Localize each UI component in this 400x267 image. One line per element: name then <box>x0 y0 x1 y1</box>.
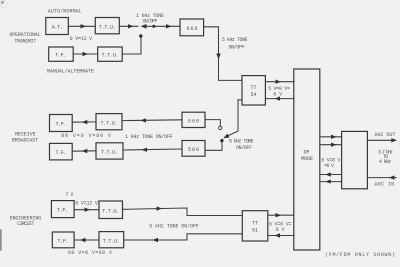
wire A.T. to T.T.U. <box>68 24 95 28</box>
svg-text:=6 V: =6 V <box>324 163 334 169</box>
smudge left edge <box>0 229 2 251</box>
svg-text:(FM/FDM ONLY SHOWN): (FM/FDM ONLY SHOWN) <box>325 252 395 258</box>
wire TT 54 to DF MODE (upper) <box>265 80 294 84</box>
wire AGC IN <box>367 175 396 179</box>
wire TT 51 to T.T.U. engineering 2 (with jog) <box>124 234 243 242</box>
box 580 <box>182 141 205 157</box>
svg-text:ON/OFF: ON/OFF <box>229 45 245 51</box>
wire 660 receive to open contact <box>205 120 220 126</box>
label 5 kHz TONE ON/OFF (receive) <box>229 139 254 151</box>
svg-text:TT: TT <box>251 85 257 91</box>
svg-text:AGC OUT: AGC OUT <box>375 132 396 138</box>
svg-text:BROADCAST: BROADCAST <box>12 137 38 143</box>
svg-text:5 kHz TONE ON/OFF: 5 kHz TONE ON/OFF <box>149 224 199 230</box>
label 1 kHz TONE ON/OFF (top) <box>136 13 164 25</box>
wire switch to 660 <box>154 24 180 28</box>
label 3.7 kHz TO 4 kHz <box>378 150 393 165</box>
box A.T. <box>46 18 69 35</box>
svg-text:51: 51 <box>252 228 258 234</box>
svg-text:TX: TX <box>66 192 74 198</box>
box T.T.U. engineering 1 <box>99 201 123 219</box>
box 660 receive <box>182 112 205 127</box>
svg-text:6 V: 6 V <box>273 92 282 98</box>
svg-text:MANUAL/ALTERNATE: MANUAL/ALTERNATE <box>47 69 94 75</box>
svg-text:AGC IN: AGC IN <box>375 181 395 187</box>
box T.F. engineering 2 <box>52 232 74 248</box>
wire DF MODE to AGC line 1 <box>320 135 341 139</box>
svg-text:T.F.: T.F. <box>56 150 67 156</box>
switch arm 5 kHz receive (arrow toward common) <box>223 131 238 138</box>
wire 660 to T.T.U. receive 1 <box>122 118 182 122</box>
box T.F. engineering 1 <box>51 201 74 218</box>
wire AGC OUT <box>367 138 396 142</box>
svg-text:54: 54 <box>251 92 257 98</box>
alternate contact dot (manual path) <box>139 34 142 37</box>
svg-text:1 kHz TONE ON/OFF: 1 kHz TONE ON/OFF <box>125 134 173 140</box>
switch common junction dot <box>220 139 223 142</box>
box T.T.U. operational auto <box>95 18 119 34</box>
paper speck top-left corner <box>0 0 7 7</box>
open contact circle (5 kHz switch off) <box>219 126 222 129</box>
svg-text:ON/OFF: ON/OFF <box>236 145 252 151</box>
box T.F. receive 1 <box>50 115 73 132</box>
wire DF MODE to AGC line 2 <box>320 143 341 147</box>
box T.F. operational manual <box>49 47 73 61</box>
svg-text:T.T.U.: T.T.U. <box>101 120 118 126</box>
box T.T.U. operational manual <box>98 47 123 61</box>
wire 660 to TT 54 (5 kHz branch) <box>204 27 242 81</box>
wire T.F. to T.T.U. engineering 1 <box>74 208 99 212</box>
svg-text:0 V=12 V: 0 V=12 V <box>75 200 98 206</box>
switch pivot dot <box>152 25 155 28</box>
wire DF MODE to TT 54 (lower) <box>265 96 294 100</box>
svg-text:0 V=12 V: 0 V=12 V <box>70 36 93 42</box>
wire AGC to DF MODE line 4 <box>320 179 341 183</box>
box AGC filter <box>342 131 368 188</box>
box T.T.U. engineering 2 <box>99 232 124 248</box>
wire T.T.U. engineering 1 to TT 51 (with jog) <box>123 206 243 215</box>
wire 580 to switch common <box>205 142 222 151</box>
svg-text:5 kHz TONE: 5 kHz TONE <box>222 37 248 43</box>
svg-text:TT: TT <box>252 221 258 227</box>
svg-text:T.F.: T.F. <box>58 238 69 244</box>
switch arm 1 kHz (arrow toward contact) <box>141 24 154 29</box>
box T.F. receive 2 <box>50 143 73 160</box>
svg-text:OPERATIONAL: OPERATIONAL <box>9 32 40 38</box>
svg-text:T.F.: T.F. <box>57 208 68 214</box>
label 5 kHz TONE ON/OFF (top) <box>222 37 248 50</box>
box T.T.U. receive 1 <box>96 114 122 130</box>
svg-text:4 kHz: 4 kHz <box>379 159 391 165</box>
wire TT 51 to DF MODE (upper) <box>268 213 295 217</box>
wire TT 54 down to 5 kHz switch arm <box>238 100 242 131</box>
svg-text:6 V: 6 V <box>276 227 285 233</box>
svg-text:T.F.: T.F. <box>55 53 66 59</box>
box 660 operational <box>180 19 204 36</box>
svg-text:T.T.U.: T.T.U. <box>99 24 116 30</box>
svg-text:MODE: MODE <box>301 156 313 162</box>
svg-text:660: 660 <box>187 26 198 32</box>
svg-text:T.F.: T.F. <box>56 121 67 127</box>
svg-text:660: 660 <box>188 118 199 124</box>
box DF MODE <box>294 69 320 250</box>
svg-text:T.T.U.: T.T.U. <box>102 209 119 215</box>
svg-text:580: 580 <box>188 147 199 153</box>
wire T.F. to T.T.U. manual <box>73 52 98 56</box>
wire DF MODE to TT 51 (lower) <box>268 233 295 237</box>
svg-text:5 kHz TONE: 5 kHz TONE <box>229 139 254 145</box>
wire T.T.U. to T.F. receive 1 <box>72 120 96 124</box>
label RECEIVE BROADCAST <box>12 132 38 144</box>
box TT 51 <box>242 211 267 241</box>
svg-text:T.T.U.: T.T.U. <box>102 53 119 59</box>
svg-text:AUTO/NORMAL: AUTO/NORMAL <box>48 8 82 14</box>
svg-text:80 V=0 V=80 V: 80 V=0 V=80 V <box>61 133 111 139</box>
label 5 V=0 V= / 6 V <box>268 86 290 98</box>
wire T.T.U. to T.F. engineering 2 <box>74 238 99 242</box>
wire T.T.U. to T.F. receive 2 <box>72 149 96 153</box>
svg-text:A.T.: A.T. <box>52 25 63 31</box>
svg-text:DF: DF <box>304 150 310 156</box>
svg-text:T.T.U.: T.T.U. <box>103 238 120 244</box>
svg-text:ON/OFF: ON/OFF <box>143 19 158 25</box>
wire AGC to DF MODE line 3 <box>320 172 341 176</box>
wire T.T.U. manual up to alternate contact <box>122 38 141 55</box>
box T.T.U. receive 2 <box>96 143 123 159</box>
wire T.T.U. to switch contact <box>119 25 138 27</box>
svg-text:CIRCUIT: CIRCUIT <box>17 221 34 227</box>
svg-text:60 V=0 V=60 V: 60 V=0 V=60 V <box>68 250 112 256</box>
label OPERATIONAL TRANSMIT <box>9 32 40 44</box>
label 6 V=0 V / =6 V <box>321 158 340 170</box>
wire 580 to T.T.U. receive 2 <box>123 148 182 152</box>
label ENGINEERING CIRCUIT <box>10 215 42 226</box>
svg-text:T.T.U.: T.T.U. <box>101 150 118 156</box>
arrowhead on wire to switch <box>128 24 134 28</box>
label 6 V=0 V= / 6 V (TT 51) <box>269 221 291 233</box>
box TT 54 <box>242 76 265 105</box>
svg-text:TRANSMIT: TRANSMIT <box>14 38 36 44</box>
